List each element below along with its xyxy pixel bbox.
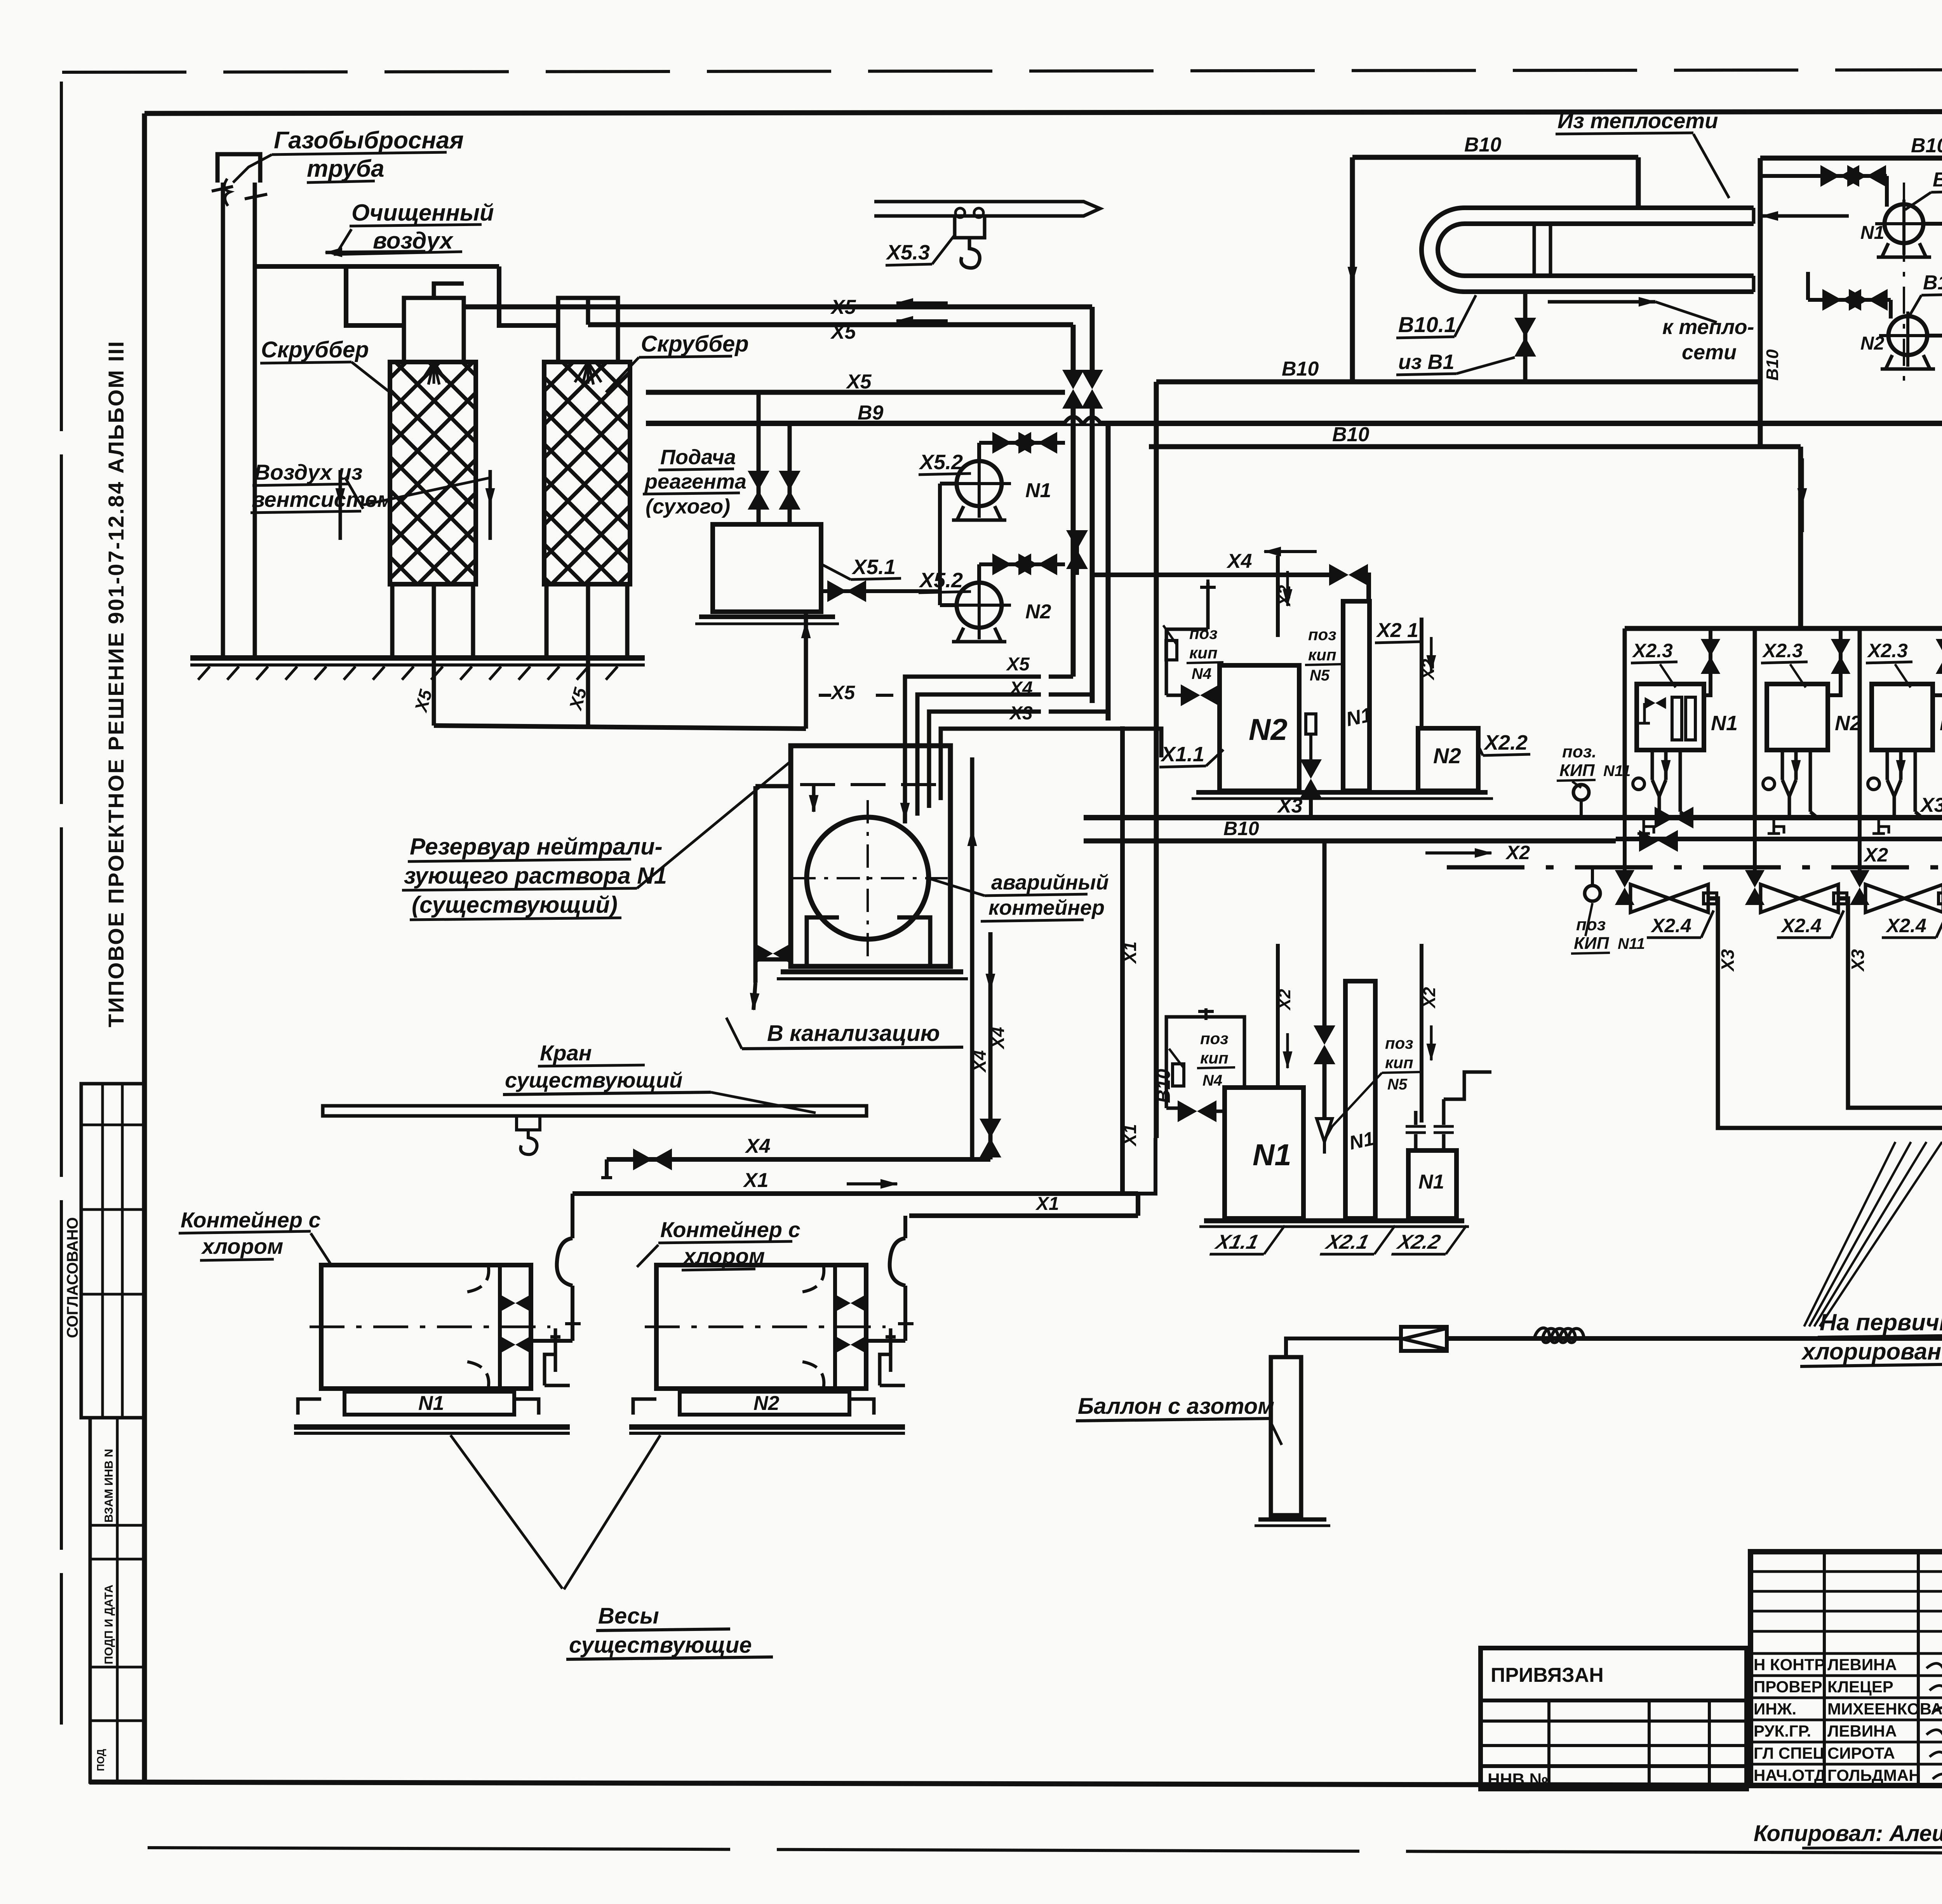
instrument KIP N11 lower: [1585, 886, 1600, 901]
ground under lower group: [1204, 1218, 1464, 1224]
valve on X5 riser 1: [1081, 370, 1103, 409]
riser B10 to heat exchanger: [1350, 157, 1355, 382]
svg-text:N1: N1: [1253, 1138, 1291, 1172]
unit N2 lower piping: [1781, 750, 1784, 780]
svg-text:существующий: существующий: [505, 1068, 682, 1092]
X2 riser upper: [1276, 555, 1280, 637]
scrubber 1 packed body with crosshatch: [390, 362, 476, 584]
svg-text:существующие: существующие: [569, 1632, 752, 1658]
valve on X2 at distribution: [1639, 830, 1678, 852]
chlorinator top manifold: [1625, 626, 1942, 631]
X2 arrow label: [1425, 851, 1491, 855]
svg-text:Газобыбросная: Газобыбросная: [274, 127, 464, 154]
svg-text:B10: B10: [1223, 818, 1259, 839]
svg-text:КИП: КИП: [1574, 934, 1610, 953]
bundle line X3 to reservoir: [929, 712, 1041, 808]
svg-text:кип: кип: [1308, 646, 1336, 664]
svg-text:ЛЕВИНА: ЛЕВИНА: [1827, 1655, 1897, 1674]
unit N2 box: [1767, 684, 1828, 750]
svg-text:X1: X1: [1035, 1194, 1059, 1214]
svg-text:X2.2: X2.2: [1394, 1231, 1443, 1253]
svg-text:X2 1: X2 1: [1376, 619, 1418, 642]
left stamp boxes upper (СОГЛАСОВАНО section): [81, 1084, 144, 1418]
svg-text:X1: X1: [743, 1169, 769, 1192]
valve on vertical x3410: [1323, 841, 1327, 1033]
svg-text:X2.1: X2.1: [1323, 1231, 1371, 1253]
duct from scrubbers to chimney: [255, 264, 499, 269]
svg-text:сети: сети: [1682, 341, 1737, 364]
small stamp table ПРИВЯЗАН: [1481, 1648, 1747, 1789]
svg-text:N1: N1: [1418, 1171, 1444, 1193]
svg-text:хлорирование: хлорирование: [1801, 1338, 1942, 1364]
svg-text:Скруббер: Скруббер: [641, 331, 749, 357]
line B10 upper (to heat exchanger): [1156, 379, 1760, 385]
valve on X4 vertical: [980, 1119, 1001, 1157]
svg-text:N2: N2: [753, 1392, 780, 1415]
container N2 riser with loop: [903, 1286, 907, 1341]
tank X5.1: [713, 524, 821, 612]
drain header under scrubbers: [434, 726, 806, 729]
pipe X5 from scrubber 2 top: [586, 298, 590, 325]
container cradle: [807, 917, 930, 966]
arrows on X5 pipes: [896, 301, 948, 305]
X1 riser to apparatus: [1120, 726, 1125, 1194]
unit N1 cascade riser and line X3: [1708, 898, 1942, 1128]
suction line to pumps from tank: [821, 589, 940, 593]
feed pipes into tank X5.1: [757, 393, 761, 524]
svg-text:В канализацию: В канализацию: [767, 1021, 940, 1046]
svg-text:ПОДП И ДАТА: ПОДП И ДАТА: [103, 1585, 115, 1664]
svg-text:B9: B9: [858, 402, 884, 424]
pump N1 inlet valves: [1760, 174, 1887, 178]
svg-text:Резервуар нейтрали-: Резервуар нейтрали-: [410, 834, 663, 860]
svg-text:ЛЕВИНА: ЛЕВИНА: [1827, 1722, 1897, 1740]
svg-text:Скруббер: Скруббер: [261, 337, 369, 362]
instrument KIP N11 upper: [1573, 785, 1589, 800]
instrument loop поз КИП N4 upper: [1166, 629, 1208, 695]
drawing frame bottom edge: [89, 1782, 1942, 1787]
unit N1 valve before X2.4: [1623, 818, 1627, 877]
svg-text:кип: кип: [1200, 1049, 1229, 1067]
svg-text:вентсистем: вентсистем: [252, 487, 393, 512]
unit N2 control valve X2.4: [1755, 897, 1759, 900]
pipe B10 to exchanger top: [1352, 155, 1638, 160]
valve to box X1.1: [1166, 694, 1185, 697]
container N1 riser with loop: [571, 1286, 574, 1341]
valve under X5 riser: [1066, 530, 1088, 569]
svg-text:ГОЛЬДМАН: ГОЛЬДМАН: [1827, 1766, 1921, 1784]
pump X5.2 N1: [957, 461, 1002, 506]
svg-text:N1: N1: [1025, 479, 1051, 502]
container N1 valve lower: [501, 1337, 529, 1352]
bottle neck and base: [1258, 1518, 1326, 1522]
main line X3: [1084, 815, 1942, 820]
emergency container circle: [807, 817, 929, 939]
svg-text:ТИПОВОЕ ПРОЕКТНОЕ РЕШЕНИЕ 90: ТИПОВОЕ ПРОЕКТНОЕ РЕШЕНИЕ 901-07-12.84 А…: [104, 340, 128, 1027]
monorail trolley: [955, 216, 985, 238]
line E2 horizontal continue: [1596, 1336, 1942, 1341]
valve below N5: [1300, 759, 1322, 798]
unit N2 riser from box to valve: [1828, 676, 1841, 695]
valve on X3 at distribution: [1655, 807, 1693, 828]
svg-text:КЛЕЦЕР: КЛЕЦЕР: [1827, 1678, 1893, 1696]
leader to reservoir: [637, 761, 791, 888]
container N2 valve lower: [837, 1337, 865, 1352]
svg-text:Очищенный: Очищенный: [352, 200, 494, 226]
svg-text:КИП: КИП: [1559, 761, 1595, 780]
svg-text:поз.: поз.: [1562, 742, 1596, 761]
unit N3 box: [1872, 684, 1933, 750]
svg-text:X2.3: X2.3: [1762, 640, 1803, 661]
ground line under scrubbers: [190, 655, 645, 661]
svg-text:N5: N5: [1387, 1076, 1408, 1093]
svg-text:X4: X4: [1009, 678, 1033, 699]
svg-text:Весы: Весы: [598, 1603, 659, 1629]
svg-text:X2: X2: [1419, 659, 1438, 681]
svg-text:поз: поз: [1189, 624, 1218, 642]
svg-text:(существующий): (существующий): [412, 892, 618, 918]
sheet outer left border: [60, 82, 63, 1725]
unit N2 rotameter circle: [1763, 778, 1775, 790]
svg-text:X2.3: X2.3: [1632, 640, 1673, 661]
funnel symbol on B10 drain: [1317, 1119, 1332, 1154]
pipe X5 from scrubber 1 top: [434, 284, 464, 298]
gas vent stack (газовыбросная труба): [218, 154, 260, 183]
svg-text:X2.2: X2.2: [1483, 731, 1528, 754]
svg-text:НАЧ.ОТД: НАЧ.ОТД: [1754, 1766, 1826, 1784]
container N1 internal pipes: [465, 1265, 489, 1292]
riser X4 continue: [1090, 404, 1095, 703]
leader to stack: [233, 155, 272, 183]
left stamp boxes lower (ВЗАМ ИНВ / ПОДП И ДАТА): [90, 1418, 144, 1782]
container N1 ground: [294, 1424, 570, 1430]
main line B10 center: [1084, 839, 1616, 844]
chlorinator unit N3 left riser: [1858, 628, 1862, 818]
monorail beam X5.3: [874, 202, 1100, 216]
svg-text:ННВ №: ННВ №: [1488, 1770, 1549, 1789]
instrument N4 body: [1166, 640, 1177, 660]
svg-text:X2.4: X2.4: [1780, 915, 1822, 936]
label X2.2 lower: [1392, 1225, 1467, 1254]
line B10 top right: [1760, 156, 1942, 161]
valve into box N1: [1166, 1107, 1181, 1110]
unit N1 rotameter circle: [1633, 778, 1644, 790]
down arrow on B10 riser: [1351, 233, 1354, 284]
svg-text:воздух: воздух: [373, 228, 454, 254]
line X1 from containers: [573, 1191, 1138, 1196]
unit N2 tap symbol: [1768, 820, 1784, 834]
scrubber 2 center drain pipe: [586, 584, 590, 726]
leader to crane beam: [711, 1092, 816, 1113]
valve on X4: [1329, 564, 1368, 586]
svg-text:X5: X5: [1006, 654, 1030, 675]
chlorine container N1: [321, 1265, 531, 1389]
unit N3 label X2.4: [1882, 910, 1942, 938]
X2 riser lower left: [1276, 944, 1280, 1017]
svg-text:N2: N2: [1249, 712, 1288, 747]
unit N3 lower piping: [1886, 750, 1889, 780]
pump B10.3 N2: [1888, 316, 1927, 355]
outlet to heat network with arrow: [1548, 300, 1606, 304]
svg-text:Контейнер с: Контейнер с: [660, 1217, 800, 1242]
container N1 valve upper: [501, 1295, 529, 1311]
svg-text:труба: труба: [307, 155, 385, 182]
svg-text:ВЗАМ ИНВ N: ВЗАМ ИНВ N: [103, 1449, 115, 1523]
tall column N1 upper: [1343, 601, 1369, 791]
pump axis dash-dot: [1903, 183, 1905, 381]
svg-text:N1: N1: [1711, 712, 1738, 735]
main title block outer: [1751, 1552, 1942, 1786]
line X4 center: [1092, 573, 1336, 577]
box N2 X2.2 upper: [1418, 728, 1478, 791]
svg-text:кип: кип: [1385, 1053, 1413, 1072]
riser X3 continue: [1106, 423, 1111, 721]
svg-text:реагента: реагента: [644, 470, 747, 493]
riser B10 upper segment: [1758, 158, 1763, 447]
instrument loop поз КИП N4 lower: [1166, 1017, 1244, 1108]
svg-text:аварийный: аварийный: [991, 871, 1109, 894]
svg-text:X1: X1: [1120, 942, 1140, 964]
svg-text:B10: B10: [1763, 349, 1782, 381]
svg-text:N1: N1: [1347, 1128, 1376, 1154]
X4 vertical right of reservoir 1: [970, 757, 974, 1159]
scrubber 1 spray nozzle: [421, 362, 447, 385]
svg-text:X3: X3: [1277, 795, 1303, 817]
line B10 lower long: [1149, 444, 1801, 449]
scrubber 2 packed body with crosshatch: [544, 362, 630, 584]
svg-text:кип: кип: [1189, 644, 1218, 662]
svg-text:X1.1: X1.1: [1213, 1231, 1261, 1253]
bundle line X5 to reservoir: [905, 677, 1041, 823]
unit N1 label X2.4: [1647, 910, 1714, 938]
valve on X5 riser 2: [1062, 370, 1084, 409]
pump B10.3 N1: [1885, 204, 1923, 243]
valve on X4 line: [633, 1149, 672, 1170]
heat exchanger B10.1 outer shell: [1422, 208, 1754, 292]
svg-text:ПОД: ПОД: [95, 1749, 106, 1771]
svg-text:X4: X4: [1226, 550, 1252, 573]
unit N3 rotameter circle: [1868, 778, 1879, 790]
hook: [961, 238, 980, 268]
svg-text:зующего раствора N1: зующего раствора N1: [404, 863, 667, 889]
reservoir drain pipe to sewer: [753, 786, 758, 947]
X2 riser lower right: [1420, 944, 1423, 1123]
arrow purified air to left: [325, 252, 425, 252]
container N2 valve upper: [837, 1295, 865, 1311]
svg-text:из B1: из B1: [1398, 350, 1455, 374]
unit N3 control valve X2.4: [1860, 897, 1864, 900]
ground hatch ticks: [198, 667, 618, 680]
svg-text:X5: X5: [846, 371, 872, 393]
unit N1 connection to X3: [1679, 750, 1682, 812]
line X5 lower-left: [646, 390, 1065, 395]
air downward arrow 1: [339, 470, 342, 505]
unions on X2.2 inlet: [1406, 1125, 1426, 1128]
sheet outer top dashed border: [62, 69, 1942, 72]
exchanger right end caps: [1752, 208, 1756, 224]
scrubber 2 skirt: [545, 584, 549, 658]
inlet arrow into reservoir: [755, 784, 791, 788]
svg-text:X5: X5: [830, 682, 855, 703]
svg-text:X1: X1: [1120, 1124, 1140, 1147]
riser X5 continue to bundle: [1071, 404, 1076, 677]
svg-text:X1.1: X1.1: [1160, 743, 1204, 766]
svg-text:Подача: Подача: [660, 446, 736, 469]
valve on tank feed 2: [779, 471, 800, 510]
unit N2 cascade riser and line X3: [1838, 898, 1942, 1108]
air downward arrow 2: [489, 470, 492, 505]
svg-text:поз: поз: [1200, 1029, 1229, 1048]
svg-text:РУК.ГР.: РУК.ГР.: [1754, 1722, 1811, 1740]
svg-text:X5.2: X5.2: [919, 451, 963, 474]
svg-text:X2.4: X2.4: [1650, 915, 1691, 936]
container N1 pallet: [345, 1392, 514, 1415]
scrubber 1 inlet box: [404, 298, 464, 362]
bottle outlet to E2: [1286, 1338, 1401, 1357]
svg-text:Копировал: Алешикова: Копировал: Алешикова: [1754, 1821, 1942, 1846]
tank X5.1 base: [699, 614, 835, 619]
unit N1 top valve: [1709, 628, 1712, 676]
svg-text:X5.1: X5.1: [851, 555, 896, 579]
unit N2 connection to X3: [1809, 750, 1812, 812]
unit N3 connection to X3: [1914, 750, 1917, 812]
unit N1 internal rotameters: [1672, 697, 1682, 740]
svg-text:ИНЖ.: ИНЖ.: [1754, 1700, 1796, 1718]
drawing frame top edge: [144, 111, 1942, 113]
svg-text:ПРИВЯЗАН: ПРИВЯЗАН: [1491, 1664, 1604, 1686]
valve on tank outlet: [827, 580, 866, 602]
tall column N1 X2.1 lower: [1345, 981, 1375, 1218]
svg-text:N2: N2: [1025, 600, 1051, 623]
pump N1 discharge valves: [977, 443, 981, 461]
bundle line 4 to reservoir: [941, 729, 1161, 800]
svg-text:N5: N5: [1310, 667, 1330, 684]
scrubber 2 inlet box: [558, 298, 618, 362]
line E2 horizontal: [1447, 1336, 1822, 1341]
svg-text:B10: B10: [1464, 134, 1501, 156]
svg-text:X4: X4: [969, 1050, 990, 1073]
svg-text:X2: X2: [1275, 585, 1294, 607]
drain from exchanger with valve из B1: [1523, 292, 1528, 382]
nitrogen bottle (баллон с азотом): [1271, 1357, 1301, 1515]
unit N1 lower piping: [1651, 750, 1654, 780]
reservoir neutralizing solution tank: [791, 746, 950, 966]
label X2.1 lower: [1320, 1225, 1395, 1254]
svg-text:X3: X3: [1009, 703, 1033, 724]
svg-text:X4: X4: [745, 1135, 771, 1157]
main line B9: [646, 421, 1942, 426]
container N1 stand with handle: [545, 1328, 560, 1385]
tube sheet marks: [1533, 224, 1536, 276]
svg-text:к тепло-: к тепло-: [1662, 315, 1754, 339]
unit N1 internal valve: [1645, 697, 1666, 709]
svg-text:N4: N4: [1192, 665, 1211, 682]
svg-text:X2: X2: [1505, 842, 1530, 863]
svg-text:Баллон с азотом: Баллон с азотом: [1078, 1394, 1274, 1419]
svg-text:N4: N4: [1202, 1072, 1222, 1089]
svg-text:Контейнер с: Контейнер с: [181, 1208, 321, 1232]
apparatus box N1 X1.1 lower: [1225, 1088, 1303, 1218]
solid line X2 manifold under units: [1616, 837, 1942, 841]
leader into exchanger: [1693, 134, 1729, 198]
svg-text:N2: N2: [1860, 333, 1885, 354]
drain valve: [753, 943, 792, 964]
svg-text:N1: N1: [1860, 223, 1884, 243]
main line X2 dashed: [1447, 865, 1942, 870]
svg-text:B10.1: B10.1: [1398, 312, 1456, 337]
riser X5 down from top line 2: [1071, 325, 1076, 374]
svg-text:B10: B10: [1911, 134, 1942, 157]
svg-text:хлором: хлором: [682, 1244, 765, 1268]
circle center dash-dot lines: [867, 800, 869, 959]
svg-text:ПРОВЕР: ПРОВЕР: [1754, 1678, 1822, 1696]
svg-text:поз: поз: [1385, 1034, 1413, 1052]
apparatus box X1.1 N2 upper: [1220, 665, 1299, 791]
svg-text:СОГЛАСОВАНО: СОГЛАСОВАНО: [64, 1217, 81, 1338]
drawing frame left edge: [142, 113, 147, 1784]
unit N3 riser from box to valve: [1933, 676, 1942, 695]
svg-text:СИРОТА: СИРОТА: [1827, 1744, 1895, 1762]
svg-text:N1: N1: [418, 1392, 444, 1415]
X1 connection from riser to box X1.1 lower: [1138, 1138, 1155, 1194]
svg-text:B10.3: B10.3: [1923, 272, 1942, 294]
unit N2 valve before X2.4: [1753, 818, 1757, 877]
instrument N4 lower body: [1173, 1064, 1184, 1086]
svg-text:поз: поз: [1308, 625, 1336, 644]
scrubber 1 skirt: [390, 584, 395, 658]
svg-text:контейнер: контейнер: [988, 896, 1105, 919]
svg-text:X2.4: X2.4: [1885, 915, 1926, 936]
riser B10 at x2977: [1154, 382, 1159, 1138]
down arrow on riser below B9: [1801, 458, 1804, 505]
svg-text:X3: X3: [1718, 949, 1738, 972]
svg-text:МИХЕЕНКОВА: МИХЕЕНКОВА: [1827, 1700, 1942, 1718]
unit N1 control valve X2.4: [1625, 897, 1629, 900]
reservoir base: [781, 969, 963, 975]
svg-text:Н КОНТР: Н КОНТР: [1754, 1655, 1825, 1674]
container N2 pallet: [680, 1392, 849, 1415]
scrubber 1 center drain pipe: [432, 584, 436, 726]
unit N1 box: [1637, 684, 1704, 750]
svg-text:поз: поз: [1576, 915, 1606, 934]
unit N2 label X2.4: [1777, 910, 1844, 938]
svg-text:X2: X2: [1275, 989, 1294, 1011]
pump X5.2 N2: [957, 583, 1002, 628]
unit N1 tap symbol: [1637, 820, 1654, 834]
B9 crossing hump: [1064, 417, 1101, 423]
svg-text:N11: N11: [1618, 935, 1645, 952]
riser from header into tank X5.1: [804, 612, 808, 729]
pump interconnect with valves: [1921, 222, 1942, 226]
svg-text:X2: X2: [1420, 987, 1439, 1009]
riser X5 down from top line 1: [1090, 307, 1095, 374]
svg-text:(сухого): (сухого): [646, 495, 730, 518]
unit N3 tap symbol: [1872, 820, 1889, 834]
container N2 internal pipes: [800, 1265, 824, 1292]
water level dashes: [800, 783, 944, 786]
title block left columns: [1823, 1552, 1826, 1786]
svg-text:N2: N2: [1433, 743, 1461, 768]
box N1 X2.2 lower: [1408, 1150, 1456, 1218]
pump N2 inlet valves: [1808, 298, 1891, 302]
container N2 stand with handle: [880, 1328, 896, 1385]
leaders to air arrows: [363, 478, 490, 505]
unit N3 valve before X2.4: [1858, 818, 1862, 877]
chlorinator unit N2 left riser: [1753, 628, 1757, 818]
svg-text:На первичное: На первичное: [1820, 1309, 1942, 1335]
signatures squiggles: [1926, 1663, 1942, 1673]
container N2 ground: [629, 1424, 905, 1430]
